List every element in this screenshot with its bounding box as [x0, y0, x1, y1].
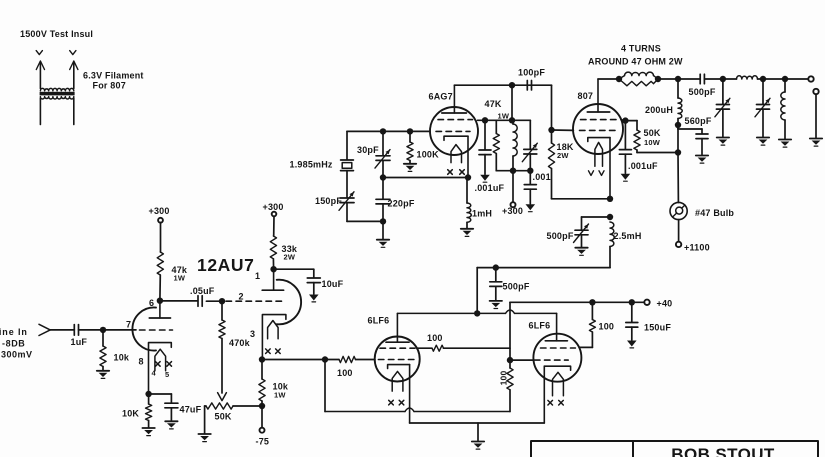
wire to output terminal [785, 78, 808, 80]
wire lower bus [496, 170, 530, 172]
label 100 vertical [499, 371, 509, 386]
wire plate bus [397, 310, 556, 313]
arrow below .001 [526, 204, 536, 211]
label 200uH [645, 105, 673, 115]
wire coil to lower bus [512, 156, 514, 171]
svg-text:1W: 1W [174, 274, 186, 283]
resistor 100 screen V4 [589, 320, 595, 333]
svg-text:4 TURNS: 4 TURNS [621, 44, 661, 54]
svg-text:+40: +40 [657, 299, 673, 309]
svg-text:6LF6: 6LF6 [368, 316, 390, 326]
wire RL to 200uH tap [658, 78, 678, 80]
label .001 [533, 172, 551, 182]
inductor output coil [737, 76, 758, 79]
arrow below 10uF [309, 295, 319, 302]
wire node to 560pF [678, 125, 702, 134]
node 200uH tap [675, 76, 681, 82]
terminal +300 left [158, 218, 163, 223]
svg-text:7: 7 [126, 320, 131, 330]
V3 screen dashes [380, 347, 415, 349]
wire junction to R-10k [102, 330, 104, 346]
node A junction [380, 174, 386, 180]
variable capacitor 150pF [339, 192, 354, 211]
V2 cathode lead [467, 136, 469, 177]
wire coil top [512, 120, 514, 124]
svg-text:200uH: 200uH [645, 105, 673, 115]
ground under output terminal [810, 139, 822, 147]
wire screen tap to 50K [625, 121, 637, 130]
wire cathode junction to 47uF [149, 394, 172, 403]
wire coil to varcap2 [758, 78, 764, 80]
wire pin1 to 10uF [274, 269, 314, 278]
capacitor 1uF [74, 325, 78, 336]
svg-text:#47 Bulb: #47 Bulb [695, 208, 734, 218]
svg-text:1W: 1W [498, 112, 510, 121]
wire 10k to -75 terminal [261, 401, 263, 428]
node plate bus junction [474, 310, 480, 316]
label 150pF [315, 196, 342, 206]
label 100K [417, 150, 440, 160]
svg-text:For 807: For 807 [93, 81, 126, 91]
label Line In [0, 327, 28, 337]
inductor 200uH [678, 98, 682, 119]
wire bottom to ground [382, 221, 384, 239]
wire 50K to bulb line [637, 150, 678, 153]
svg-text:6.3V Filament: 6.3V Filament [83, 71, 144, 81]
pin 1 label [255, 271, 260, 281]
wire +300 to 47k [160, 223, 162, 252]
svg-text:30pF: 30pF [357, 145, 379, 155]
node screen bus left [482, 117, 488, 123]
V3 screen lead [417, 347, 432, 349]
V4 cathode [544, 366, 570, 370]
ground under 47uF [165, 421, 177, 429]
label 300mV [1, 350, 33, 360]
wire 10K to ground [148, 421, 150, 428]
label +1100 [684, 243, 710, 253]
label 1mH [472, 209, 492, 219]
svg-text:+300: +300 [263, 202, 284, 212]
capacitor 47uF [165, 403, 178, 408]
wire 100pF gap cover [512, 84, 552, 86]
wire 200uH top [677, 79, 679, 98]
wire screen tap [621, 119, 625, 122]
ground cathode bus [472, 442, 484, 450]
V2 grid dashes [436, 130, 470, 132]
label 220pF [388, 199, 415, 209]
node V1b cathode junction [259, 356, 265, 362]
wire 18K to cathode bus [552, 169, 611, 199]
svg-text:500pF: 500pF [503, 282, 530, 292]
variable capacitor 30pF [375, 150, 390, 169]
wire .001uF to arrow [484, 155, 486, 175]
capacitor .001 [524, 185, 536, 190]
wire 500pF to ground [581, 235, 583, 247]
svg-text:10k: 10k [114, 353, 130, 363]
svg-text:1mH: 1mH [472, 209, 492, 219]
capacitor .001uF screen [479, 150, 491, 155]
wire R100a to V2 grid [356, 359, 375, 361]
terminal output hot [808, 76, 813, 81]
label +300 left [149, 206, 170, 216]
V5 heater [595, 142, 603, 166]
triode V1a envelope arc [132, 308, 156, 351]
pentode V2 6AG7 envelope [430, 107, 478, 155]
wire grid tap to V3 grid [510, 359, 533, 361]
svg-text:AROUND 47 OHM 2W: AROUND 47 OHM 2W [588, 57, 683, 67]
svg-text:2.5mH: 2.5mH [614, 231, 642, 241]
svg-text:.05uF: .05uF [190, 286, 215, 296]
node pin6 [157, 298, 163, 304]
variable capacitor interstage [522, 143, 537, 162]
resistor 47K 1W [493, 134, 499, 154]
node V2 cathode junction [465, 174, 471, 180]
label 100 screen V3 [427, 333, 443, 343]
inductor shunt output [781, 79, 785, 139]
capacitor 500pF series [700, 74, 704, 84]
resistor 18K 2W [548, 130, 554, 169]
wire screen bus [478, 119, 531, 121]
input arrow [39, 324, 50, 335]
V4 heater x marks [548, 400, 563, 405]
ground under 220pF [377, 240, 389, 248]
svg-text:6AG7: 6AG7 [429, 92, 453, 102]
wire varcap1 to coil [723, 78, 737, 80]
svg-text:1500V Test Insul: 1500V Test Insul [20, 29, 93, 39]
wire screen tap to .001uF [624, 121, 626, 150]
wire 150uF drop [631, 302, 633, 322]
wire down to crystal [346, 131, 348, 159]
wire 500pF to varcap1 [704, 78, 723, 80]
svg-text:Line In: Line In [0, 327, 28, 337]
V2 screen dashes [438, 119, 473, 121]
wire R100c to +40 rail [591, 302, 593, 319]
V1a cathode [149, 343, 172, 394]
V1a heater [155, 349, 166, 371]
svg-text:2W: 2W [284, 252, 296, 261]
label 1uF [71, 337, 88, 347]
node coil2 tap [782, 76, 788, 82]
svg-text:+1100: +1100 [684, 243, 710, 253]
label 6.3V Filament [83, 71, 144, 81]
label 47k [172, 265, 188, 283]
wire 47K drop [495, 120, 497, 133]
V5 plate [587, 79, 609, 112]
wire C-.05uF to node2 [206, 300, 222, 302]
svg-text:100: 100 [599, 322, 615, 332]
terminal +300 mid [511, 202, 516, 207]
resistor 50K 10W [634, 130, 640, 150]
wire cathode bus [262, 359, 325, 361]
label 33k [282, 244, 298, 261]
pin 6 label [149, 298, 154, 308]
wire 50K left to ground [205, 406, 206, 434]
wire bulb line to bulb [677, 153, 679, 203]
filament transformer T1 [36, 51, 78, 125]
V3 plate [386, 341, 409, 343]
svg-text:47uF: 47uF [180, 405, 202, 415]
label AROUND 47 OHM 2W [588, 57, 683, 67]
wiper arrow onto 50K pot [218, 393, 227, 401]
wire C-1uF to V1 grid [79, 329, 137, 331]
svg-text:100K: 100K [417, 150, 440, 160]
crystal Y1 1.985mHz [341, 160, 354, 171]
arrow below 150uF [627, 341, 637, 348]
wire varcap drop [529, 120, 531, 149]
resistor 10k 1W [259, 379, 265, 401]
wire junction to 500pF branch [582, 217, 611, 230]
wire R100b to +40 drop [444, 347, 511, 349]
svg-text:6LF6: 6LF6 [529, 321, 551, 331]
pin 7 label [126, 320, 131, 330]
ground under 500pF cathode [575, 248, 587, 256]
svg-text:+300: +300 [149, 206, 170, 216]
node 2 junction [219, 298, 225, 304]
variable capacitor tank2 [755, 79, 770, 137]
V2 plate [442, 85, 467, 113]
svg-text:.001uF: .001uF [628, 161, 658, 171]
V2 cathode [444, 136, 468, 140]
wire varcap2 to coil2 [763, 78, 785, 80]
wire V1b cathode to 10k 1W [261, 360, 263, 380]
ground under 100K [404, 164, 416, 172]
label 47K 1W [485, 99, 510, 121]
label 560pF [685, 116, 712, 126]
label 100 grid V2 [337, 368, 353, 378]
svg-text:807: 807 [578, 91, 594, 101]
label +40 [657, 299, 673, 309]
wire .001uF 807 to arrow [624, 154, 626, 173]
svg-text:10K: 10K [122, 409, 139, 419]
V5 grid dashes [580, 129, 618, 131]
pin 3 label [250, 329, 255, 339]
label -8DB [2, 339, 25, 349]
parasitic choke 4T/47ohm [619, 72, 658, 86]
svg-text:.001: .001 [533, 172, 551, 182]
wire 500pF mid drop [495, 268, 497, 282]
ground under 560pF [696, 156, 708, 164]
inductor interstage coil [513, 124, 517, 156]
capacitor 560pF [696, 134, 708, 139]
ground under 10k [97, 371, 109, 379]
svg-text:150uF: 150uF [644, 323, 671, 333]
node 560pF junction [675, 122, 681, 128]
label 50K pot [215, 412, 232, 422]
wire rail down to screen bus [511, 85, 513, 120]
wire pin6 to C-.05uF [160, 300, 197, 302]
wire cathode bus bottom [410, 422, 545, 424]
V1b heater pin x marks [266, 349, 281, 354]
resistor 470k [219, 320, 225, 339]
ground under tank1 [717, 138, 729, 146]
svg-text:500pF: 500pF [547, 231, 574, 241]
capacitor 500pF mid [490, 282, 502, 287]
label 18K 2W [557, 142, 574, 160]
pin 5 label [165, 370, 169, 379]
terminal output ground [813, 89, 818, 94]
potentiometer 50K [206, 403, 233, 409]
label 100 screen V4 [599, 322, 615, 332]
svg-text:2: 2 [239, 292, 244, 302]
label 30pF [357, 145, 379, 155]
label 50K 10W [644, 128, 661, 147]
label .001uF 807 [628, 161, 658, 171]
wire down to plate bus [476, 268, 478, 314]
wire V2 plate top rail [454, 84, 551, 86]
node varcap2 tap [760, 76, 766, 82]
inductor 1mH [467, 203, 471, 222]
node lower bus right [527, 168, 533, 174]
label 100pF [518, 68, 545, 78]
terminal +40 [644, 300, 649, 305]
node varcap1 tap [720, 76, 726, 82]
V4 cathode lead [543, 366, 545, 423]
wire grid junction to 30pF [382, 131, 384, 155]
wire +300 to 33k [273, 216, 275, 236]
svg-text:150pF: 150pF [315, 196, 342, 206]
resistor 10K cathode [146, 404, 152, 421]
capacitor .05uF [198, 296, 202, 307]
label 47uF [180, 405, 202, 415]
V4 screen lead [579, 332, 592, 347]
svg-text:47K: 47K [485, 99, 502, 109]
wire cathode junction to 1mH [466, 178, 468, 204]
wire 30pF to node A [382, 160, 384, 177]
node 807 grid junction [548, 127, 554, 133]
node -75 junction [259, 403, 265, 409]
wire 33k to pin1 [272, 259, 274, 269]
arrow below .001uF 807 [621, 174, 631, 181]
label 10K cathode [122, 409, 139, 419]
V1b cathode [262, 315, 286, 359]
wire 10uF down [313, 283, 315, 294]
wire 47k to pin6 [159, 275, 161, 301]
wire 220pF to bottom [382, 204, 384, 222]
wire 47K to lower bus [495, 154, 497, 171]
node +40 R100c junction [589, 299, 595, 305]
node RL left [616, 76, 622, 82]
ground under 50K [198, 434, 210, 442]
resistor 33k 2W [270, 236, 276, 259]
wire grid line 6AG7 [347, 130, 430, 132]
label 6LF6 V3 [368, 316, 390, 326]
node cathode tank junction [607, 214, 613, 220]
svg-text:2W: 2W [557, 151, 569, 160]
capacitor 220pF [376, 199, 390, 204]
label +300 right [263, 202, 284, 212]
svg-text:12AU7: 12AU7 [197, 255, 254, 275]
wire .001 to arrow [529, 189, 531, 204]
resistor 100K [407, 131, 413, 163]
wire junction to 10K [148, 394, 150, 404]
V4 screen dashes [541, 347, 576, 349]
label 10uF [322, 279, 344, 289]
node drive junction [322, 356, 328, 362]
lamp #47 bulb [670, 202, 687, 219]
tetrode V4 6LF6 envelope [533, 334, 581, 382]
label 10k 1W [273, 382, 289, 400]
wire crystal to 150pF [346, 171, 348, 198]
arrow below .001uF [480, 175, 490, 182]
resistor 100 vertical [507, 368, 513, 390]
label #47 Bulb [695, 208, 734, 218]
label 6AG7 [429, 92, 453, 102]
label .05uF [190, 286, 215, 296]
wire bottom grid return [325, 408, 510, 412]
tetrode V3 6LF6 envelope [375, 337, 420, 382]
wire 470k to wiper arrow [221, 339, 223, 394]
label 6LF6 V4 [529, 321, 551, 331]
wire node down to bulb line [677, 125, 679, 153]
V4 heater [553, 372, 564, 395]
label 807 [578, 91, 594, 101]
node input grid junction [100, 327, 106, 333]
title block border [531, 441, 818, 457]
terminal +1100 [676, 242, 681, 247]
wire V4 plate lead [556, 313, 558, 340]
label +300 mid [502, 206, 523, 216]
svg-text:-75: -75 [256, 437, 270, 447]
variable capacitor tank1 [715, 79, 730, 137]
resistor 47k 1W [157, 252, 163, 275]
terminal +300 right [272, 212, 277, 217]
label 1.985mHz [290, 160, 333, 170]
svg-text:8: 8 [139, 356, 144, 366]
wire 1mH to ground [466, 222, 468, 228]
wire varcap to lower bus [529, 154, 531, 171]
svg-text:470k: 470k [229, 338, 251, 348]
node V5 screen tap [622, 117, 628, 123]
label -75 [256, 437, 270, 447]
resistor 100 grid V2 [339, 356, 356, 362]
label 2.5mH [614, 231, 642, 241]
svg-text:1uF: 1uF [71, 337, 88, 347]
wire 500pF mid to ground [495, 286, 497, 300]
label 4 TURNS [621, 44, 661, 54]
tetrode V5 807 envelope [573, 104, 623, 154]
wire osc bottom [347, 220, 383, 222]
variable capacitor 500pF cathode [574, 224, 589, 243]
V5 cathode [588, 138, 610, 142]
svg-text:10W: 10W [644, 138, 661, 147]
ground under 500pF mid [490, 301, 502, 309]
V2 heater x marks [448, 170, 465, 175]
resistor 100 screen V3 [432, 345, 444, 351]
svg-text:100: 100 [427, 333, 443, 343]
svg-text:50K: 50K [644, 128, 661, 138]
svg-text:6: 6 [149, 298, 154, 308]
resistor 10k input [100, 346, 106, 367]
inductor 2.5mH [610, 222, 614, 247]
wire 560pF to ground [701, 139, 703, 155]
pin 2 label [239, 292, 244, 302]
node pin1 [270, 266, 276, 272]
wire R100v to +40 rail [509, 302, 511, 368]
wire 2.5mH down and left [477, 247, 610, 268]
label For 807 [93, 81, 126, 91]
label 1500V Test Insul [20, 29, 93, 39]
label 150uF [644, 323, 671, 333]
svg-text:100: 100 [499, 371, 509, 386]
wire 150uF to arrow [631, 327, 633, 340]
node +40 150uF junction [629, 299, 635, 305]
label 12AU7 [197, 255, 254, 275]
V1b plate [262, 269, 283, 290]
wire return up to R100v [509, 390, 511, 412]
ground under tank2 [757, 138, 769, 146]
label 10k input [114, 353, 130, 363]
wire cathode bus to ground [477, 423, 479, 441]
